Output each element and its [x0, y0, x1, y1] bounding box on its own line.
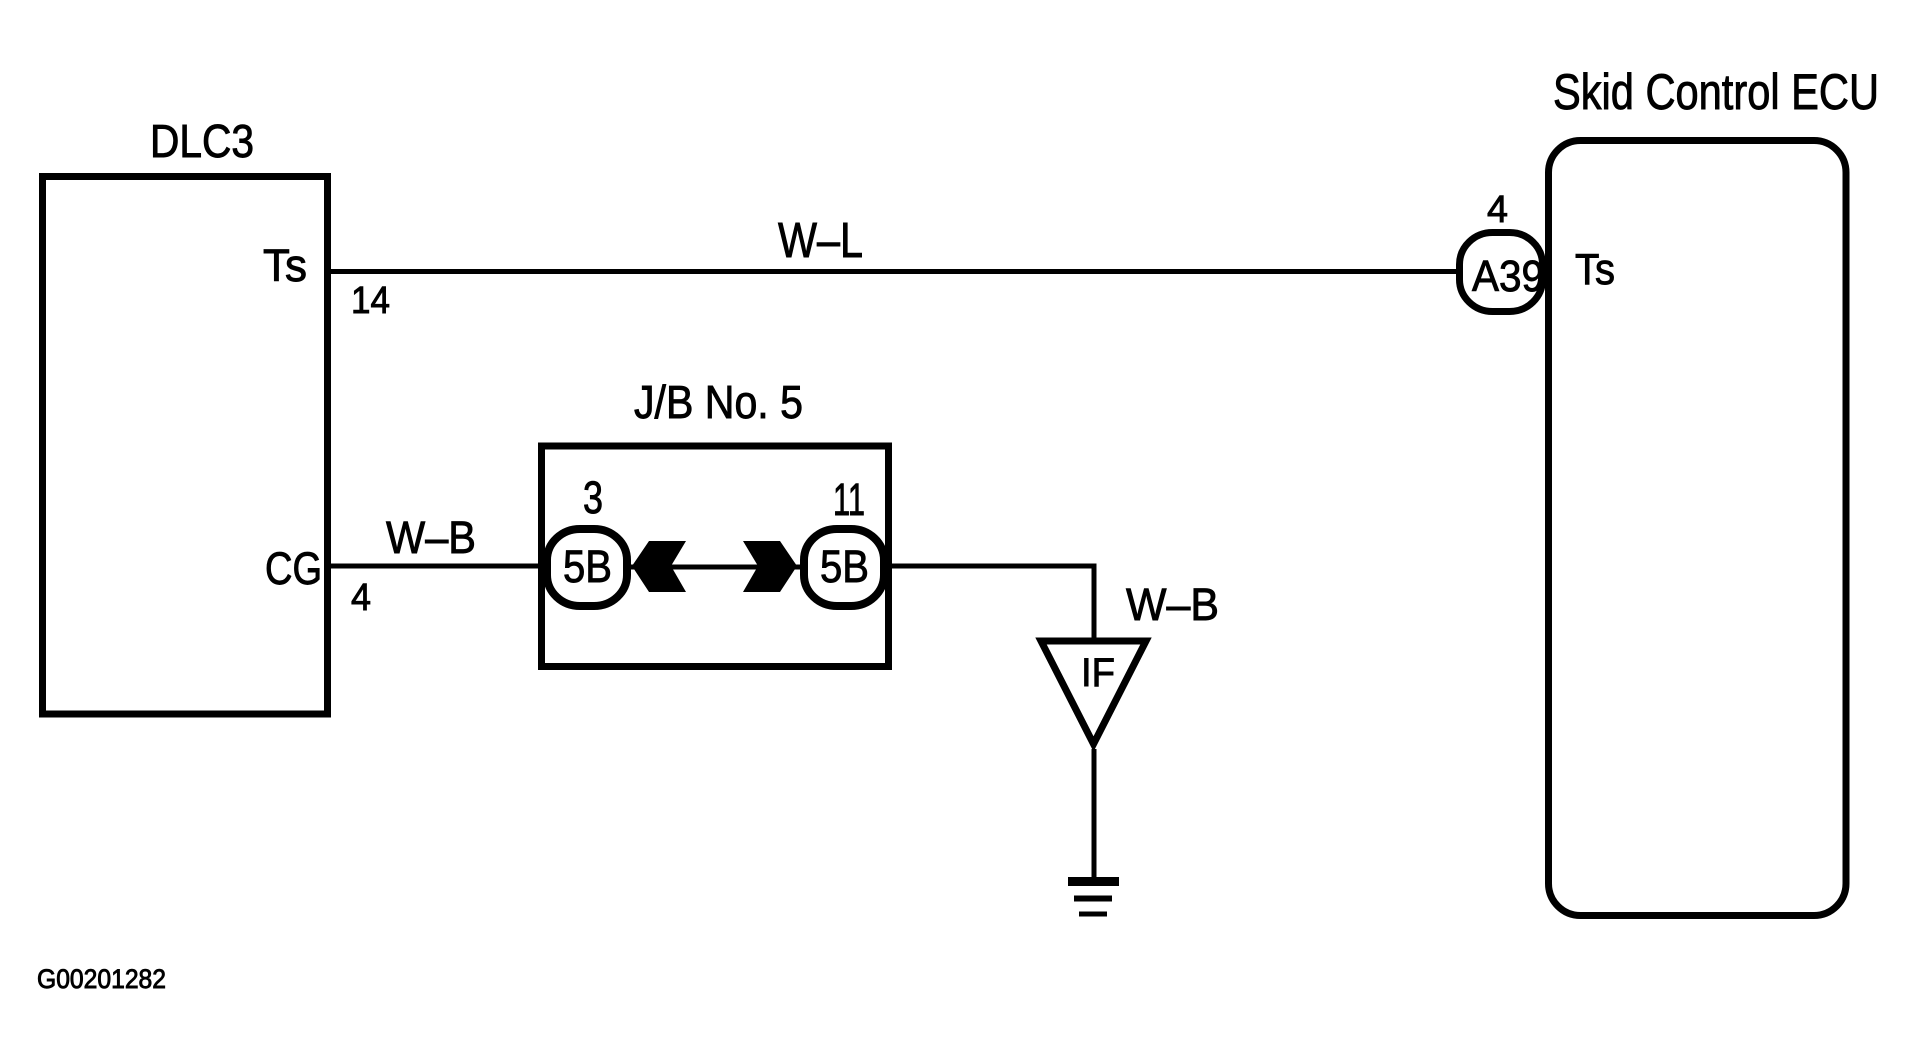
svg-text:Ts: Ts	[1575, 245, 1615, 294]
connector arrow left (pointing left)	[632, 541, 686, 592]
svg-text:W–B: W–B	[386, 512, 476, 563]
wire W-L from DLC3 Ts pin 14 to A39	[331, 269, 1458, 274]
svg-text:5B: 5B	[563, 541, 612, 592]
connector block DLC3	[43, 177, 328, 715]
svg-text:4: 4	[351, 577, 371, 619]
wire W-B from J/B No.5 pin 11 to ground triangle IF	[880, 566, 1094, 643]
svg-text:DLC3: DLC3	[150, 115, 254, 167]
svg-text:J/B No. 5: J/B No. 5	[634, 376, 803, 428]
svg-text:5B: 5B	[820, 541, 869, 592]
ground triangle IF	[1041, 641, 1146, 744]
svg-text:3: 3	[583, 472, 603, 523]
svg-text:W–B: W–B	[1126, 579, 1219, 630]
svg-text:G00201282: G00201282	[37, 964, 166, 994]
connector 5B right	[804, 529, 884, 606]
wire W-B from DLC3 CG pin 4 to J/B No.5 pin 3	[331, 564, 560, 569]
ground symbol	[1068, 877, 1119, 886]
wire inside J/B No.5 between 5B connectors	[625, 565, 805, 570]
wire from IF triangle to ground	[1092, 749, 1097, 877]
connector 5B left	[547, 529, 627, 606]
junction block J/B No. 5	[542, 446, 889, 667]
svg-text:Ts: Ts	[263, 240, 307, 291]
svg-text:A39: A39	[1472, 252, 1544, 301]
svg-text:IF: IF	[1081, 651, 1115, 695]
connector arrow right (pointing right)	[743, 541, 797, 592]
svg-text:W–L: W–L	[778, 214, 863, 268]
svg-text:CG: CG	[265, 543, 322, 594]
svg-text:Skid Control ECU: Skid Control ECU	[1553, 64, 1879, 120]
svg-text:11: 11	[833, 474, 865, 525]
svg-text:14: 14	[351, 280, 390, 322]
connector A39	[1460, 233, 1543, 312]
svg-text:4: 4	[1487, 189, 1508, 231]
ECU block Skid Control ECU	[1549, 141, 1847, 916]
